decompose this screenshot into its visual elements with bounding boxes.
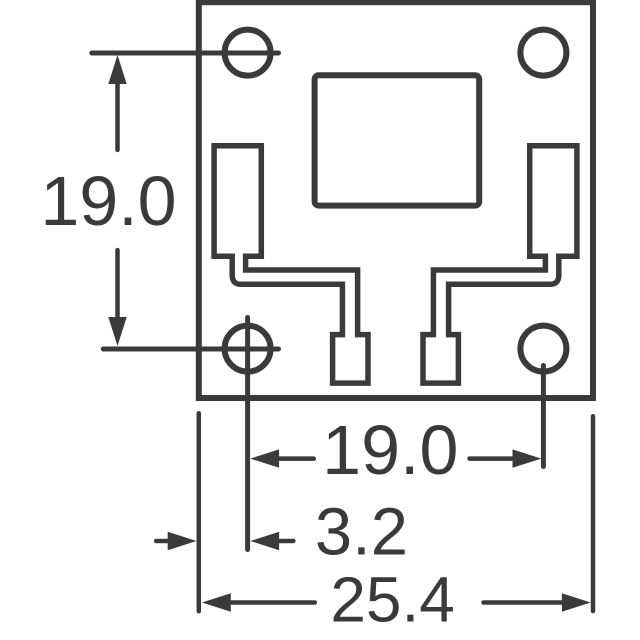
svg-text:25.4: 25.4 xyxy=(330,564,455,636)
svg-text:19.0: 19.0 xyxy=(322,411,458,489)
svg-text:3.2: 3.2 xyxy=(315,495,408,570)
svg-text:19.0: 19.0 xyxy=(40,162,176,240)
